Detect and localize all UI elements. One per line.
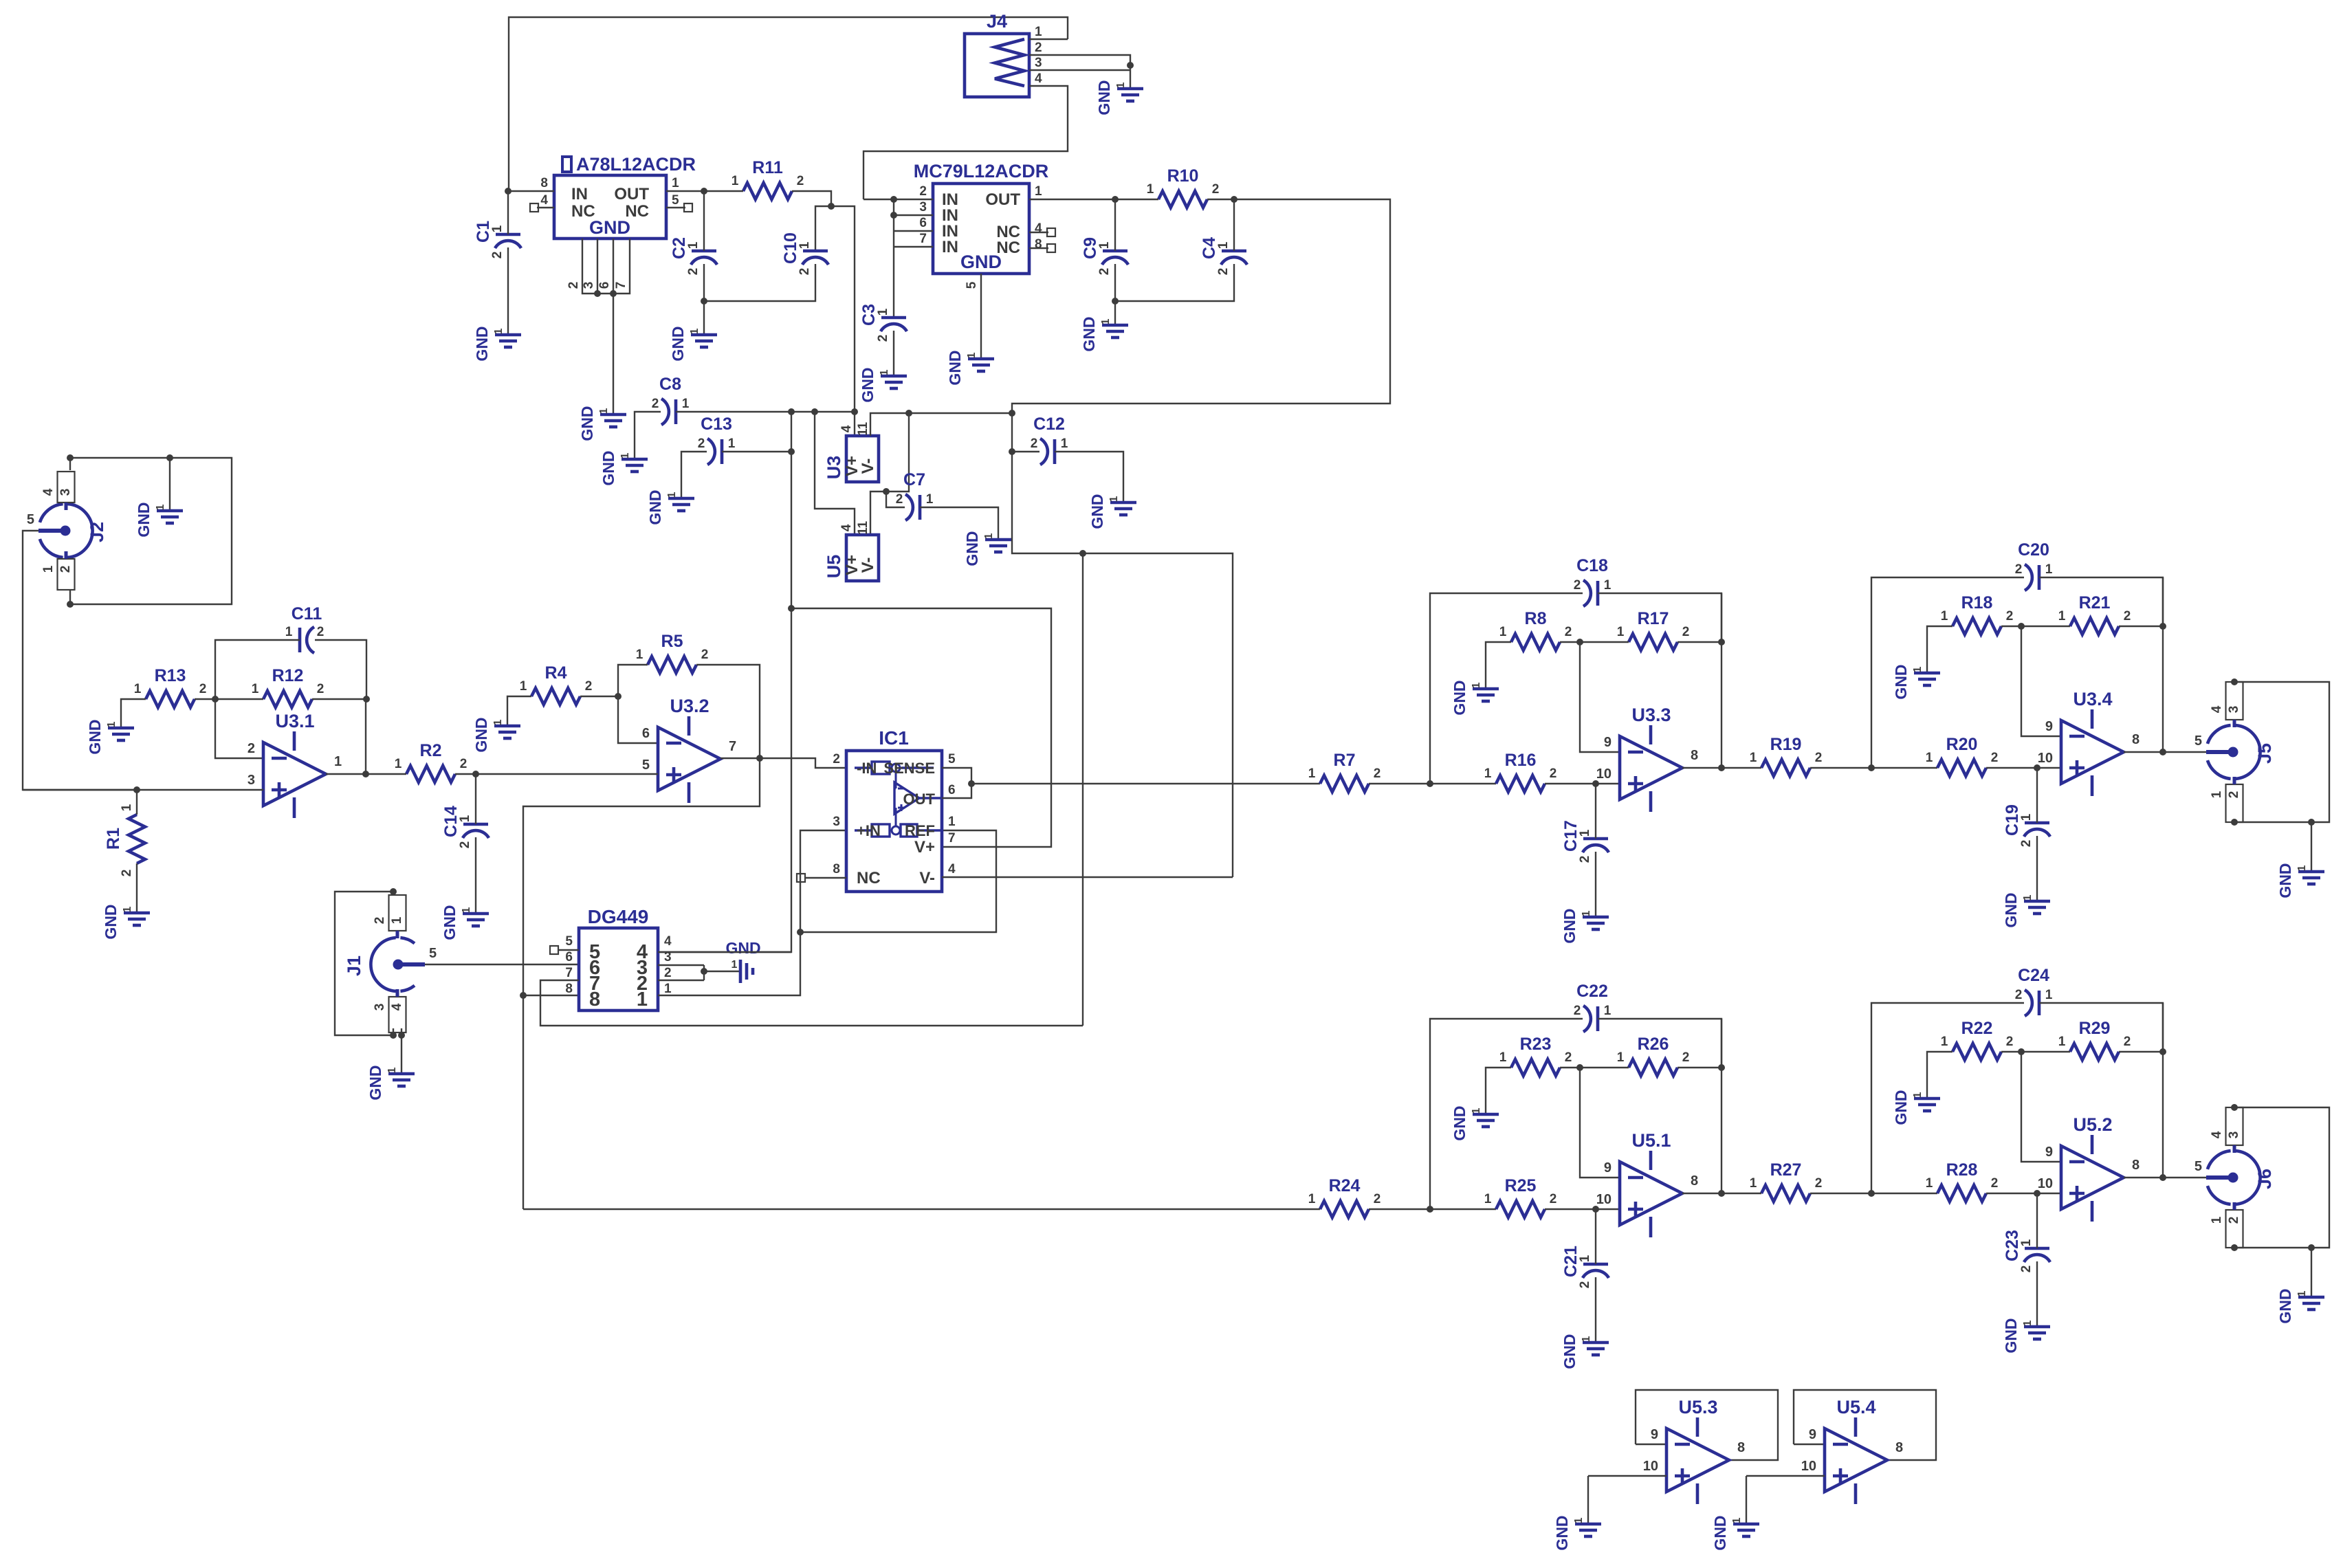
wire R29 pin2 <box>2119 1051 2163 1052</box>
wire C22 pin1 side <box>1598 1019 1721 1068</box>
svg-text:1: 1 <box>637 989 648 1011</box>
wire C7 pin2 <box>886 492 905 507</box>
analog switch DG449 <box>565 906 672 1011</box>
wire U3.3 output <box>1682 767 1721 769</box>
svg-text:R24: R24 <box>1329 1176 1361 1195</box>
svg-text:1: 1 <box>1484 1192 1492 1206</box>
svg-text:7: 7 <box>614 282 628 289</box>
wire U5.3 inverting input <box>1636 1444 1666 1445</box>
svg-text:GND: GND <box>725 939 760 957</box>
svg-text:1: 1 <box>1308 1192 1316 1206</box>
svg-text:J4: J4 <box>987 11 1007 32</box>
wire R11 pin2 to C10/rail <box>792 191 831 206</box>
wire feedback to inverting input <box>2021 1052 2061 1162</box>
junction V- / C7 branch <box>905 410 912 417</box>
svg-text:R12: R12 <box>272 666 304 685</box>
svg-text:2: 2 <box>1212 182 1220 197</box>
wire J5 ground stem <box>2311 822 2312 872</box>
wire uA78 IN pin8 <box>508 190 554 192</box>
op-amp U5.2 <box>2061 1146 2124 1209</box>
junction C9 bottom / ground <box>1112 298 1119 305</box>
wire R26 pin1 <box>1580 1067 1629 1068</box>
svg-text:GND: GND <box>1553 1515 1571 1550</box>
ground at J5 <box>2298 872 2324 884</box>
pads J1 top pins 2 1 <box>389 895 406 931</box>
wire DG449 pin7 to V- <box>540 980 1083 1026</box>
svg-text:DG449: DG449 <box>588 906 649 927</box>
junction J6 bottom left <box>2231 1244 2238 1251</box>
wire +12V rail <box>676 411 855 412</box>
wire output feedback column <box>2162 577 2164 752</box>
svg-text:1: 1 <box>1912 1092 1924 1098</box>
svg-text:2: 2 <box>1031 437 1038 451</box>
svg-text:3: 3 <box>833 815 840 829</box>
ground at C19 <box>2024 901 2050 914</box>
op-amp U3.4 <box>2061 720 2124 784</box>
svg-text:2: 2 <box>1550 766 1557 781</box>
svg-text:3: 3 <box>582 282 596 289</box>
svg-text:1: 1 <box>2019 1239 2034 1246</box>
wire C23 top <box>2036 1193 2038 1248</box>
svg-text:1: 1 <box>619 452 631 459</box>
wire J4 pin1 <box>1029 38 1068 40</box>
wire J5 top rail <box>2234 682 2329 822</box>
svg-text:1: 1 <box>2296 1290 2308 1296</box>
svg-text:1: 1 <box>390 916 404 924</box>
svg-text:R4: R4 <box>545 663 567 683</box>
svg-text:2: 2 <box>833 752 840 766</box>
svg-text:1: 1 <box>285 625 293 639</box>
wire R17 pin1 <box>1580 641 1629 643</box>
wire J1 gnd stem <box>401 1028 402 1074</box>
junction J5 top <box>2231 678 2238 685</box>
junction R2 / C14 / U3.2 +in <box>472 771 479 777</box>
wire R24 pin2 <box>1369 1208 1430 1210</box>
ground at R23 <box>1473 1114 1499 1127</box>
svg-text:1: 1 <box>1578 1255 1592 1262</box>
svg-text:1: 1 <box>2019 813 2034 821</box>
resistor R27 <box>1761 1185 1810 1202</box>
svg-text:2: 2 <box>2019 840 2034 848</box>
svg-text:2: 2 <box>317 625 324 639</box>
svg-text:1: 1 <box>686 241 701 249</box>
wire R19 pin2 <box>1810 767 1871 769</box>
svg-text:2: 2 <box>1565 625 1572 639</box>
svg-text:SENSE: SENSE <box>883 760 935 777</box>
wire U3.1 output <box>326 773 366 775</box>
ground at R1 <box>124 913 150 925</box>
wire MC79 IN pin2 <box>863 199 933 200</box>
svg-text:7: 7 <box>948 831 956 846</box>
svg-text:1: 1 <box>252 682 259 696</box>
svg-text:2: 2 <box>2227 791 2241 799</box>
svg-text:1: 1 <box>672 176 679 190</box>
wire C10 bottom <box>704 264 815 301</box>
svg-text:1: 1 <box>682 397 690 411</box>
wire feedback to inverting input <box>2021 626 2061 736</box>
wire U5.3 +in ground stem <box>1587 1476 1589 1524</box>
svg-text:2: 2 <box>120 870 134 877</box>
svg-text:1: 1 <box>879 369 890 375</box>
svg-text:R19: R19 <box>1770 735 1802 754</box>
svg-text:OUT: OUT <box>903 791 936 808</box>
svg-text:R13: R13 <box>155 666 186 685</box>
connector J1 <box>371 938 415 991</box>
svg-text:4: 4 <box>1035 221 1042 236</box>
svg-text:1: 1 <box>492 719 504 725</box>
svg-text:2: 2 <box>490 252 505 259</box>
svg-text:1: 1 <box>1216 241 1231 249</box>
wire C2 top <box>703 191 705 251</box>
svg-text:1: 1 <box>1926 751 1933 765</box>
svg-text:9: 9 <box>1604 735 1611 750</box>
svg-text:J2: J2 <box>87 522 107 542</box>
svg-text:GND: GND <box>135 502 153 537</box>
svg-text:5: 5 <box>2194 733 2202 749</box>
svg-text:3: 3 <box>1035 56 1042 70</box>
wire R22 pin1 to ground <box>1927 1052 1952 1098</box>
svg-text:10: 10 <box>1801 1459 1816 1474</box>
wire J6 top rail <box>2234 1107 2329 1248</box>
svg-text:C22: C22 <box>1576 982 1608 1001</box>
wire C3 bottom to ground <box>893 331 894 376</box>
svg-text:IN: IN <box>942 238 958 256</box>
wire U3 V+ pin4 <box>854 412 855 436</box>
wire J2 pin5 to U3.1 +in <box>23 531 137 790</box>
wire DG449 pin8 <box>523 995 579 996</box>
wire U5.4 noninverting input <box>1746 1475 1825 1477</box>
junction R11 out / C10 <box>828 203 835 210</box>
svg-text:2: 2 <box>1578 856 1592 863</box>
wire R5 pin1 <box>618 665 648 696</box>
resistor R4 <box>531 688 580 705</box>
svg-text:3: 3 <box>247 773 255 788</box>
svg-text:GND: GND <box>1711 1515 1729 1550</box>
wire J1 pin5 to DG449 pin6 <box>425 964 579 965</box>
ground at MC79 <box>968 359 994 371</box>
svg-text:R22: R22 <box>1961 1019 1993 1038</box>
wire MC79 GND pin5 <box>980 274 982 359</box>
wire IC1 OUT pin6 <box>942 784 971 798</box>
svg-text:2: 2 <box>797 174 804 188</box>
svg-text:1: 1 <box>728 437 736 451</box>
svg-text:U3.4: U3.4 <box>2073 689 2112 709</box>
svg-text:R11: R11 <box>752 158 783 177</box>
svg-text:8: 8 <box>1035 237 1042 252</box>
wire +12V input rail from J4 pin1 to regulator IN <box>509 17 1068 191</box>
svg-text:10: 10 <box>2038 751 2053 766</box>
junction R16 / C17 / +in <box>1592 780 1599 787</box>
svg-text:3: 3 <box>2227 706 2241 714</box>
svg-text:MC79L12ACDR: MC79L12ACDR <box>914 161 1049 181</box>
svg-text:2: 2 <box>701 648 709 662</box>
resistor R20 <box>1937 760 1986 776</box>
svg-text:1: 1 <box>1750 1176 1757 1191</box>
capacitor C24 <box>2038 991 2041 1015</box>
svg-text:GND: GND <box>946 350 964 385</box>
wire C4 bottom <box>1115 264 1234 301</box>
svg-text:1: 1 <box>1750 751 1757 765</box>
ground at R8 <box>1473 689 1499 701</box>
junction J1 top <box>390 888 397 895</box>
resistor R8 <box>1511 634 1560 650</box>
svg-text:1: 1 <box>983 533 995 539</box>
wire feedback to inverting input <box>1580 1068 1620 1178</box>
ground at C3 <box>881 376 907 388</box>
svg-text:1: 1 <box>664 982 672 996</box>
junction uA78 OUT / C2 / R11 <box>701 188 707 195</box>
wire C9 ground stem <box>1114 301 1116 325</box>
svg-text:1: 1 <box>876 308 890 316</box>
wire U5 V- pin11 <box>870 492 886 535</box>
svg-text:6: 6 <box>597 282 612 289</box>
svg-text:1: 1 <box>461 907 472 913</box>
svg-text:+IN: +IN <box>857 822 881 839</box>
svg-text:6: 6 <box>565 950 573 964</box>
svg-text:2: 2 <box>460 757 467 771</box>
resistor R28 <box>1937 1185 1986 1202</box>
ground at R18 <box>1914 673 1940 685</box>
pads J5 bottom pins 1 2 <box>2226 784 2243 822</box>
wire uA78 NC pin4 <box>537 207 554 208</box>
svg-text:3: 3 <box>919 200 927 214</box>
ground at C8 <box>621 459 648 472</box>
wire stage1a output to R19 <box>1721 767 1761 769</box>
svg-text:GND: GND <box>86 719 104 754</box>
ground at U5.4 <box>1733 1524 1759 1536</box>
junction R23/R26/feedback <box>1576 1064 1583 1071</box>
svg-text:1: 1 <box>1061 437 1068 451</box>
wire C17 bottom to ground <box>1595 852 1596 917</box>
svg-text:5: 5 <box>672 193 679 208</box>
svg-text:2: 2 <box>1550 1192 1557 1206</box>
svg-text:IN: IN <box>571 185 588 203</box>
wire J4 ground stem <box>1130 65 1131 89</box>
svg-text:1: 1 <box>666 492 678 498</box>
wire C24 pin2 side <box>1871 1003 2024 1193</box>
wire MC79 IN bus <box>893 199 894 318</box>
wire U5 V+ feed <box>815 412 855 535</box>
ground at J2 <box>157 511 183 523</box>
svg-text:2: 2 <box>1991 1176 1999 1191</box>
resistor R21 <box>2070 618 2119 634</box>
ground at J6 <box>2298 1297 2324 1310</box>
svg-text:1: 1 <box>120 804 134 811</box>
wire R16 pin2 <box>1545 783 1620 784</box>
svg-text:GND: GND <box>2002 1318 2020 1353</box>
svg-text:R1: R1 <box>104 828 123 850</box>
wire R23 pin1 to ground <box>1486 1068 1511 1114</box>
wire uA78 NC pin5 <box>666 207 685 208</box>
svg-text:U5.1: U5.1 <box>1631 1130 1671 1151</box>
svg-text:1: 1 <box>1471 682 1482 688</box>
junction R24/R25/C22 <box>1427 1206 1433 1213</box>
junction J2 bottom <box>67 601 74 608</box>
wire C20 pin2 side <box>1871 577 2024 768</box>
svg-text:5: 5 <box>429 946 437 961</box>
junction U3.2 out / feedback <box>756 755 763 762</box>
regulator U1 uA78L12ACDR <box>540 154 696 239</box>
svg-text:1: 1 <box>1499 1050 1507 1065</box>
svg-text:4: 4 <box>839 425 854 432</box>
svg-text:1: 1 <box>1581 910 1592 916</box>
resistor R19 <box>1761 760 1810 776</box>
wire J4 pin4 to MC79 IN <box>863 86 1068 199</box>
nc pad pin5 <box>684 203 692 212</box>
wire U3.4 output to J5 <box>2163 751 2206 753</box>
svg-text:8: 8 <box>1691 1173 1698 1189</box>
wire U5.1 output <box>1682 1193 1721 1194</box>
wire R11 pin1 <box>704 190 743 192</box>
junction J2 top <box>67 454 74 461</box>
resistor R18 <box>1952 618 2001 634</box>
svg-text:1: 1 <box>731 174 739 188</box>
wire J4 pin3 to ground <box>1029 69 1130 71</box>
svg-text:6: 6 <box>948 783 956 797</box>
resistor R29 <box>2070 1044 2119 1060</box>
junction R28 / C23 / +in <box>2034 1190 2040 1197</box>
svg-text:GND: GND <box>1080 316 1098 351</box>
wire uA78 OUT pin1 <box>666 190 704 192</box>
svg-text:GND: GND <box>473 326 491 361</box>
svg-text:4: 4 <box>41 488 56 496</box>
junction U3.3 output <box>1718 764 1725 771</box>
wire R1 bottom to ground <box>136 863 137 913</box>
svg-text:GND: GND <box>669 326 687 361</box>
wire U3.2 noninverting input <box>476 773 658 775</box>
svg-text:7: 7 <box>919 232 927 246</box>
svg-text:GND: GND <box>1561 1334 1578 1369</box>
wire V- branch down to C7/U5 <box>886 413 909 492</box>
svg-text:1: 1 <box>122 906 133 912</box>
wire C19 bottom to ground <box>2036 836 2038 901</box>
junction C12 pin2 <box>1009 448 1015 455</box>
svg-text:2: 2 <box>698 437 705 451</box>
ground at R22 <box>1914 1098 1940 1111</box>
svg-text:1: 1 <box>334 754 342 769</box>
ground at C17 <box>1583 917 1609 929</box>
wire C13 pin1 to +12 column <box>722 451 791 452</box>
svg-text:GND: GND <box>1451 680 1468 715</box>
wire C21 top <box>1595 1209 1596 1264</box>
wire U3.2 out to IC1 -IN <box>760 758 846 768</box>
svg-text:4: 4 <box>540 193 548 208</box>
nc pad DG449 pin5 <box>550 946 558 954</box>
pads J1 bottom pins 3 4 <box>389 997 406 1033</box>
svg-text:2: 2 <box>919 184 927 199</box>
wire U3.2 output <box>720 758 760 759</box>
junction J6 bottom right <box>2308 1244 2315 1251</box>
wire R21 pin1 <box>2021 626 2070 627</box>
capacitor C20 <box>2038 565 2041 590</box>
svg-text:2: 2 <box>2124 609 2131 623</box>
junction J1 bottom left <box>390 1032 397 1039</box>
wire U5.2 output to J6 <box>2163 1177 2206 1178</box>
svg-text:1: 1 <box>926 492 934 507</box>
svg-text:4: 4 <box>2210 1131 2224 1138</box>
wire -12V from R10 to V- rail <box>1012 199 1390 413</box>
resistor R13 <box>146 691 195 707</box>
svg-text:4: 4 <box>839 524 854 531</box>
wire U5.2 output <box>2124 1177 2163 1178</box>
junction R27/R28/C24 <box>1868 1190 1875 1197</box>
svg-text:2: 2 <box>1574 1004 1581 1018</box>
svg-text:1: 1 <box>1108 496 1120 502</box>
svg-text:1: 1 <box>106 721 118 727</box>
pads J2 bottom pins 1 2 <box>58 559 75 590</box>
junction R21 / C20 column <box>2159 623 2166 630</box>
svg-text:1: 1 <box>2022 894 2034 901</box>
wire inverting input U3.1 <box>215 699 263 758</box>
wire DG449 pins 2-3 tie <box>703 965 705 980</box>
svg-text:C18: C18 <box>1576 556 1608 575</box>
svg-text:GND: GND <box>1892 664 1910 699</box>
wire C20 pin1 side <box>2039 577 2163 626</box>
svg-text:2: 2 <box>797 268 812 276</box>
svg-text:GND: GND <box>1095 80 1113 115</box>
svg-text:2: 2 <box>652 397 659 411</box>
svg-text:U5.2: U5.2 <box>2073 1114 2112 1135</box>
wire output feedback column <box>1721 593 1722 768</box>
svg-text:GND: GND <box>2276 863 2294 898</box>
svg-text:3: 3 <box>373 1004 387 1011</box>
svg-text:1: 1 <box>1941 1035 1948 1049</box>
svg-text:C7: C7 <box>903 470 925 489</box>
svg-text:1: 1 <box>1308 766 1316 781</box>
svg-text:1: 1 <box>598 408 610 414</box>
capacitor C9 <box>1103 250 1127 253</box>
svg-text:9: 9 <box>1651 1427 1658 1442</box>
junction C2/C10 bottom <box>701 298 707 305</box>
ground at R4 <box>494 726 520 738</box>
svg-text:2: 2 <box>585 679 593 694</box>
capacitor C22 <box>1596 1006 1600 1031</box>
junction R25 / C21 / +in <box>1592 1206 1599 1213</box>
wire uA78 ground pins 2 3 6 7 bus <box>582 239 630 294</box>
wire V- to right column <box>1083 553 1233 877</box>
wire J2 top rail <box>70 458 232 604</box>
svg-text:11: 11 <box>856 422 870 437</box>
wire MC79 IN pin6 <box>894 230 933 232</box>
svg-text:2: 2 <box>566 282 581 289</box>
wire IC1 SENSE pin5 <box>942 768 971 784</box>
svg-text:GND: GND <box>599 450 617 485</box>
svg-text:GND: GND <box>1451 1105 1468 1140</box>
wire DG449 pin5 nc <box>558 949 579 951</box>
svg-text:1: 1 <box>1484 766 1492 781</box>
svg-text:IC1: IC1 <box>879 727 909 749</box>
junction ground bus pin3 <box>594 290 601 297</box>
svg-text:4: 4 <box>948 862 956 876</box>
wire noninverting input U3.1 <box>23 789 263 791</box>
svg-text:1: 1 <box>1471 1107 1482 1114</box>
svg-text:U3: U3 <box>824 456 844 480</box>
wire C2 ground stem <box>703 301 705 335</box>
wire C11 pin2 <box>315 640 366 699</box>
wire IC1 NC pin8 <box>805 877 846 879</box>
svg-text:R18: R18 <box>1961 593 1993 612</box>
regulator U2 MC79L12ACDR <box>914 161 1049 289</box>
svg-text:GND: GND <box>589 217 630 238</box>
junction R8/R17/feedback <box>1576 639 1583 645</box>
svg-text:2: 2 <box>317 682 324 696</box>
svg-text:GND: GND <box>102 904 120 939</box>
wire U5.3 feedback loop <box>1636 1390 1778 1460</box>
svg-text:1: 1 <box>1941 609 1948 623</box>
ground at R13 <box>108 728 134 740</box>
junction ground bus pin6 <box>610 290 617 297</box>
svg-text:11: 11 <box>856 521 870 535</box>
